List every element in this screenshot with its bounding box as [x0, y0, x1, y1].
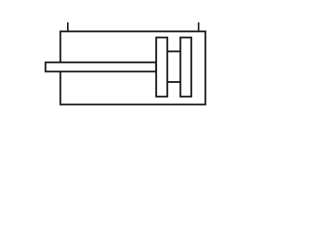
piston plate 1 — [156, 38, 167, 97]
cylinder barrel — [60, 31, 205, 104]
piston plate 2 — [180, 38, 191, 97]
port tick right — [198, 22, 200, 31]
piston connector top line — [167, 50, 182, 52]
port tick left — [67, 22, 69, 31]
piston connector bottom line — [167, 81, 182, 83]
piston rod — [46, 62, 157, 71]
